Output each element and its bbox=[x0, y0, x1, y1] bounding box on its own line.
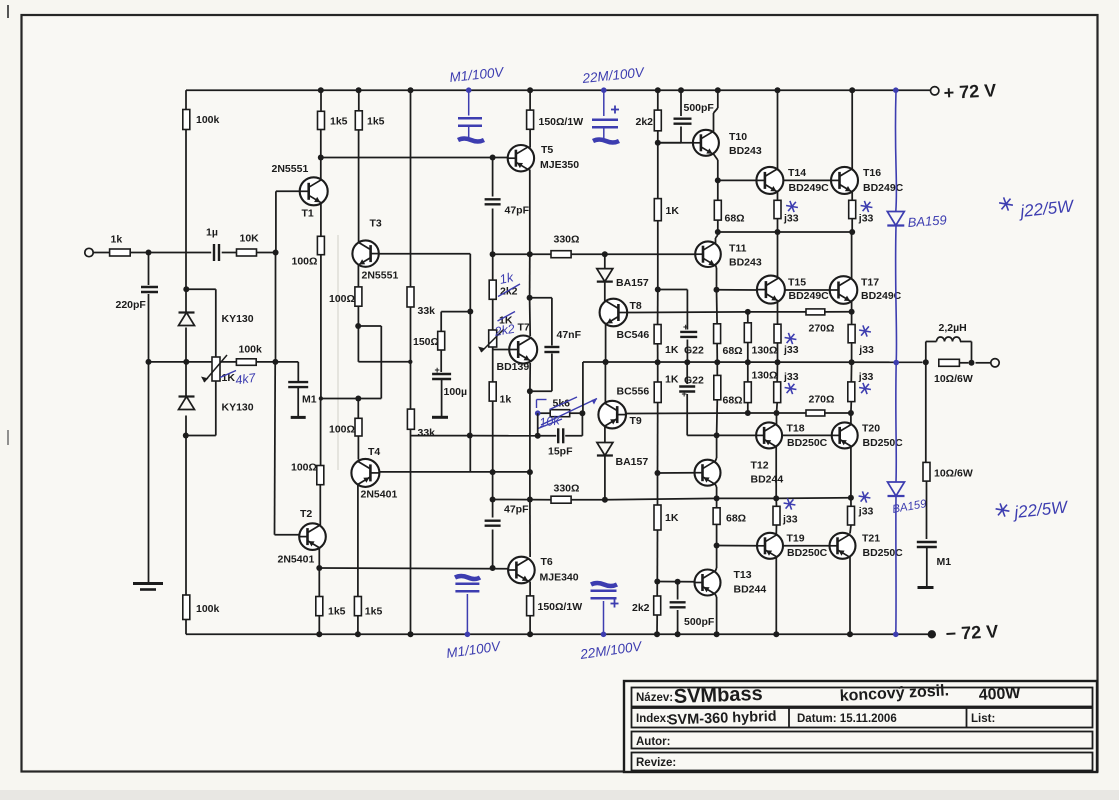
resistor 130R lower bbox=[744, 369, 777, 402]
svg-text:2N5551: 2N5551 bbox=[272, 163, 309, 175]
transistor T12 BD244 bbox=[695, 460, 784, 486]
diode BA159 upper (blue) bbox=[887, 212, 947, 230]
svg-text:G22: G22 bbox=[684, 345, 704, 357]
resistor 100k feedback bbox=[236, 344, 262, 366]
resistor 100R T2 collector bbox=[291, 462, 324, 485]
wire T9 base row bbox=[626, 412, 748, 415]
resistor R1 1k input bbox=[110, 234, 131, 257]
wire zobel column bbox=[925, 362, 927, 462]
wire T2 collector to 100R bbox=[319, 485, 321, 526]
node KY column lower junction bbox=[183, 433, 189, 439]
capacitor 22M/100V bottom (blue electrolytic) bbox=[578, 583, 644, 662]
node T18 base row bbox=[714, 432, 720, 438]
node T5 base row 47pF junction bbox=[490, 155, 496, 161]
wire T19 collector row bbox=[717, 497, 777, 499]
node T12 base bbox=[655, 470, 661, 476]
wire T10 base row bbox=[658, 142, 693, 144]
resistor j33 T20 bbox=[848, 371, 874, 402]
svg-text:M1: M1 bbox=[937, 556, 952, 568]
title block row Autor bbox=[632, 732, 1093, 749]
wire T5 emitter down bbox=[528, 169, 529, 171]
svg-text:T6: T6 bbox=[541, 556, 553, 568]
wire 33k column bbox=[410, 90, 412, 287]
node 130R upper top bbox=[745, 309, 751, 315]
wire T16 collector to rail bbox=[851, 90, 853, 169]
node BA157 upper bbox=[602, 251, 608, 257]
resistor R 100k bottom-left bbox=[183, 595, 220, 620]
wire junction row to T1 column bbox=[321, 398, 358, 400]
node branch lower bbox=[467, 433, 473, 439]
svg-text:T3: T3 bbox=[370, 218, 382, 230]
node T15 row upper bbox=[715, 229, 721, 235]
wire T3 emitter to 100R bbox=[357, 265, 359, 287]
capacitor M1 zobel bbox=[917, 542, 951, 568]
wire 100k feedback row y=361.9 bbox=[186, 361, 211, 363]
wire T3 base row bbox=[379, 253, 471, 255]
resistor 270R lower bbox=[806, 394, 834, 416]
svg-text:BD250C: BD250C bbox=[863, 547, 904, 559]
wire 5k6 right leg down bbox=[581, 413, 583, 436]
wire T15 collector row bbox=[718, 231, 852, 233]
svg-text:BA157: BA157 bbox=[616, 277, 649, 289]
svg-text:j33: j33 bbox=[858, 213, 874, 225]
diode BA159 lower (blue) bbox=[888, 482, 929, 516]
svg-text:100k: 100k bbox=[196, 603, 220, 615]
wire T20 collector down bbox=[850, 447, 852, 498]
wire T6 base row bbox=[319, 567, 508, 570]
resistor 68R fourth bbox=[713, 508, 746, 525]
wire T9 collector to BA157 lower bbox=[604, 426, 606, 443]
annotation blue 10k correction bbox=[535, 397, 597, 430]
svg-text:BD139: BD139 bbox=[497, 361, 530, 373]
svg-text:T14: T14 bbox=[788, 167, 806, 179]
svg-text:T16: T16 bbox=[863, 167, 881, 179]
node output row right junctions bbox=[923, 359, 929, 365]
svg-text:j33: j33 bbox=[858, 371, 874, 383]
svg-text:T21: T21 bbox=[862, 533, 880, 545]
svg-text:BD249C: BD249C bbox=[789, 182, 830, 194]
wire 330R upper row bbox=[493, 253, 551, 255]
trimmer 1K bias (corrected 2k2) bbox=[478, 312, 516, 353]
svg-text:T19: T19 bbox=[787, 533, 805, 545]
node T4 base row at 492.8 bbox=[490, 469, 496, 475]
terminal input bbox=[85, 248, 93, 256]
svg-text:150Ω: 150Ω bbox=[413, 336, 439, 348]
svg-text:130Ω: 130Ω bbox=[752, 344, 778, 356]
svg-text:MJE350: MJE350 bbox=[540, 159, 579, 171]
svg-text:BD243: BD243 bbox=[729, 145, 762, 157]
wire T14 emitter to j33 bbox=[777, 192, 779, 200]
transistor T14 BD249C bbox=[756, 167, 829, 194]
wire T2 emitter bbox=[318, 548, 320, 568]
wire rail to 150R/1W top bbox=[529, 90, 531, 110]
node BA157 lower to 330R row bbox=[602, 497, 608, 503]
resistor 2k2 upper bbox=[636, 110, 662, 131]
annotation blue 4k7 correction bbox=[220, 371, 257, 388]
wire top +72V rail bbox=[186, 89, 931, 91]
node T13 base bbox=[654, 579, 660, 585]
svg-text:1k5: 1k5 bbox=[365, 606, 383, 618]
ground M1 zobel bbox=[918, 586, 934, 589]
svg-text:+ 72 V: + 72 V bbox=[943, 80, 997, 103]
node 220pF to KY wire bbox=[149, 361, 187, 363]
wire T11 emitter bbox=[716, 265, 717, 268]
wire T3 emitter branch to right loop bbox=[357, 306, 359, 326]
svg-text:j33: j33 bbox=[783, 371, 799, 383]
node T14 base row bbox=[715, 177, 721, 183]
wire T17 collector up bbox=[851, 232, 853, 279]
node output row junctions mid bbox=[655, 359, 661, 365]
wire T19 base row bbox=[717, 545, 757, 547]
capacitor 500pF upper bbox=[674, 102, 715, 124]
svg-text:T10: T10 bbox=[729, 131, 747, 143]
ground M1 left bbox=[291, 416, 306, 419]
annotation star j33 T18 bbox=[785, 388, 797, 390]
svg-text:− 72 V: − 72 V bbox=[945, 621, 999, 644]
node blue column output row bbox=[893, 360, 899, 366]
resistor 68R first bbox=[714, 200, 744, 224]
wire T18 base row bbox=[717, 434, 757, 436]
wire 15pF row bbox=[410, 435, 470, 437]
resistor 2k2 lower bbox=[632, 596, 661, 615]
node 47nF bottom bbox=[527, 388, 533, 394]
wire 100R to T4 bbox=[357, 399, 359, 419]
resistor 1K third bbox=[654, 373, 679, 402]
svg-text:MJE340: MJE340 bbox=[540, 572, 579, 584]
capacitor G22 lower branch bbox=[686, 362, 688, 384]
capacitor 47pF lower bbox=[485, 504, 529, 526]
transistor T19 BD250C bbox=[757, 533, 828, 560]
svg-text:1k: 1k bbox=[500, 394, 512, 406]
wire 1K second leads bbox=[657, 290, 659, 325]
svg-text:BD250C: BD250C bbox=[863, 437, 904, 449]
node T12 emitter row bbox=[714, 495, 720, 501]
wire T20 emitter up bbox=[850, 413, 852, 425]
wire 2k2 to T10 base node bbox=[657, 131, 659, 143]
svg-text:220pF: 220pF bbox=[116, 299, 147, 311]
capacitor 22M/100V top (blue electrolytic) bbox=[581, 64, 647, 142]
svg-text:T8: T8 bbox=[630, 300, 642, 312]
wire T15 emitter to j33 lower bbox=[777, 302, 779, 325]
ground 100u bbox=[432, 416, 448, 419]
svg-text:2N5401: 2N5401 bbox=[278, 554, 315, 566]
svg-text:j33: j33 bbox=[783, 213, 799, 225]
annotation star j33 T17 bbox=[859, 330, 871, 332]
svg-text:+: + bbox=[682, 389, 687, 399]
annotation star j33 T14 bbox=[786, 206, 798, 208]
svg-text:47pF: 47pF bbox=[504, 504, 529, 516]
wire 5k6 left leg down bbox=[537, 413, 539, 436]
svg-text:BA157: BA157 bbox=[616, 456, 649, 468]
svg-text:G22: G22 bbox=[684, 375, 704, 387]
node T15 base row bbox=[714, 287, 720, 293]
wire 1k5 T2 column bbox=[318, 568, 320, 597]
svg-text:1K: 1K bbox=[665, 373, 679, 385]
node blue column bottom bbox=[893, 632, 899, 638]
svg-text:BD250C: BD250C bbox=[787, 437, 828, 449]
transistor T18 BD250C bbox=[756, 422, 828, 448]
wire j33 T15 to output row bbox=[777, 343, 779, 362]
resistor 130R upper bbox=[744, 323, 777, 357]
svg-text:T15: T15 bbox=[788, 277, 806, 289]
wire 130R upper leads bbox=[747, 312, 749, 323]
resistor 1k bias lower bbox=[489, 382, 511, 406]
node T8/T9 emitter junction bbox=[603, 359, 609, 365]
resistor j33 T14 bbox=[774, 200, 799, 224]
svg-text:2k2: 2k2 bbox=[632, 602, 650, 614]
svg-text:T5: T5 bbox=[541, 144, 553, 156]
resistor 5k6 (corrected 10k) bbox=[550, 398, 570, 417]
svg-text:270Ω: 270Ω bbox=[809, 394, 835, 406]
svg-text:j33: j33 bbox=[783, 344, 799, 356]
capacitor 500pF upper column bbox=[680, 90, 682, 116]
svg-text:500pF: 500pF bbox=[684, 616, 715, 628]
svg-text:T4: T4 bbox=[368, 446, 380, 458]
wire T15 base row bbox=[717, 289, 758, 291]
wire T13 collector bbox=[715, 568, 717, 572]
wire 1K fourth leads bbox=[657, 473, 659, 505]
wire 150R bottom to rail bbox=[529, 616, 531, 635]
capacitor 15pF bbox=[548, 428, 573, 457]
svg-text:100Ω: 100Ω bbox=[292, 256, 318, 268]
wire T16 emitter to j33 bbox=[851, 192, 853, 200]
wire 68R first leads bbox=[717, 180, 719, 200]
svg-text:KY130: KY130 bbox=[222, 402, 254, 414]
wire T12 base row bbox=[658, 472, 695, 474]
annotation star j33 T20 bbox=[859, 388, 871, 390]
wire 150R branch bbox=[441, 311, 470, 313]
capacitor G22 upper bbox=[680, 322, 704, 357]
wire T11 collector bbox=[715, 238, 717, 244]
node G22 branch upper bbox=[655, 287, 661, 293]
svg-text:33k: 33k bbox=[418, 305, 436, 317]
wire 330R lower row bbox=[493, 499, 551, 501]
node 47nF top bbox=[527, 295, 533, 301]
wire trimmer branch from KY upper node bbox=[186, 288, 216, 290]
svg-text:100Ω: 100Ω bbox=[329, 293, 355, 305]
wire T8 base row bbox=[627, 311, 748, 314]
wire VAS column T5 to 47nF node bbox=[529, 254, 531, 298]
wire 5k6 node up to emitter row bbox=[582, 362, 584, 413]
resistor 1k5 left bbox=[318, 111, 348, 129]
svg-text:Autor:: Autor: bbox=[636, 736, 671, 748]
wire 1k5 to bottom rail bbox=[318, 616, 320, 635]
node KY column mid junction bbox=[183, 359, 189, 365]
transistor T3 2N5551 bbox=[352, 218, 398, 282]
node blue column top bbox=[893, 87, 899, 93]
wire 47pF column upper bbox=[492, 158, 494, 197]
wire T3 emitter down to 33k corner bbox=[357, 326, 359, 362]
wire T12 emitter bbox=[715, 484, 717, 487]
transistor T8 BC546 bbox=[600, 299, 650, 341]
diode BA157 lower bbox=[597, 443, 648, 469]
wire T14 base row segment bbox=[718, 179, 757, 181]
svg-text:T12: T12 bbox=[751, 460, 769, 472]
wire 47nF node to T7 collector bbox=[529, 298, 532, 336]
wire 220pF branch x=148.5 bbox=[148, 253, 150, 286]
resistor 1K second bbox=[654, 325, 679, 356]
resistor j33 T19 bbox=[773, 506, 798, 525]
transistor T20 BD250C bbox=[832, 422, 903, 448]
svg-text:List:: List: bbox=[971, 713, 995, 725]
svg-text:15pF: 15pF bbox=[548, 446, 573, 458]
resistor j33 T16 bbox=[849, 200, 874, 224]
svg-text:T11: T11 bbox=[729, 243, 747, 255]
node input junction 220pF bbox=[146, 250, 152, 256]
wire T17 emitter to j33 bbox=[851, 302, 853, 312]
wire T10 emitter bbox=[714, 154, 718, 160]
diode BA157 upper bbox=[597, 269, 649, 289]
resistor 10R/6W vertical bbox=[923, 462, 973, 481]
wire 150R to T5 collector bbox=[529, 129, 531, 147]
svg-text:j33: j33 bbox=[858, 506, 874, 518]
svg-text:j33: j33 bbox=[782, 514, 798, 526]
svg-text:10Ω/6W: 10Ω/6W bbox=[934, 373, 973, 385]
wire column 1k section bbox=[492, 347, 494, 382]
svg-text:1k: 1k bbox=[111, 234, 123, 246]
svg-text:BC556: BC556 bbox=[617, 386, 650, 398]
wire 1K upper column bbox=[657, 143, 659, 199]
node branch upper bbox=[467, 309, 473, 315]
svg-text:47pF: 47pF bbox=[505, 205, 530, 217]
wire T20 base segment bbox=[782, 434, 832, 436]
inductor 2.2uH bbox=[926, 322, 972, 363]
svg-text:1K: 1K bbox=[665, 344, 679, 356]
wire 1k5 left to rail bbox=[320, 90, 322, 111]
wire T17 base segment bbox=[785, 289, 830, 291]
resistor 150R bias bbox=[413, 331, 445, 350]
svg-text:150Ω/1W: 150Ω/1W bbox=[538, 601, 583, 613]
capacitor 1u input coupling bbox=[206, 227, 219, 262]
wire T1 collector to 1k5 bbox=[320, 158, 322, 181]
wire G22 branch upper bbox=[658, 289, 688, 291]
svg-text:2N5401: 2N5401 bbox=[361, 489, 398, 501]
wire 1K third leads bbox=[657, 362, 659, 382]
svg-text:T13: T13 bbox=[734, 569, 752, 581]
transistor T4 2N5401 bbox=[351, 446, 397, 501]
wire bottom -72V rail bbox=[186, 633, 928, 635]
resistor 100R T3 emitter bbox=[329, 287, 362, 306]
transistor T21 BD250C bbox=[830, 533, 904, 560]
transistor T16 BD249C bbox=[831, 167, 904, 194]
resistor 68R third bbox=[714, 375, 743, 406]
annotation star j33 T19 bbox=[784, 503, 796, 505]
wire T15 collector up bbox=[777, 232, 779, 278]
resistor j33 T18 bbox=[774, 371, 799, 403]
terminal +72V bbox=[931, 80, 997, 103]
node 330R lower row left bbox=[490, 497, 496, 503]
wire 2k2 column top bbox=[657, 90, 659, 110]
transistor T15 BD249C bbox=[757, 276, 829, 304]
node T2 emitter bbox=[316, 565, 322, 571]
svg-text:330Ω: 330Ω bbox=[554, 483, 580, 495]
wire T1 emitter to 100R bbox=[320, 203, 322, 237]
svg-text:100Ω: 100Ω bbox=[291, 462, 317, 474]
wire T18 emitter up bbox=[776, 413, 778, 425]
transistor T5 MJE350 bbox=[508, 144, 580, 171]
svg-text:T20: T20 bbox=[862, 423, 880, 435]
svg-text:KY130: KY130 bbox=[222, 313, 254, 325]
terminal -72V bbox=[928, 621, 999, 644]
svg-text:47nF: 47nF bbox=[557, 329, 582, 341]
wire 150R to 100u bbox=[440, 350, 442, 372]
wire M1 to ground bbox=[297, 387, 299, 417]
wire input row bbox=[93, 252, 110, 254]
annotation star j33 T16 bbox=[861, 206, 873, 208]
wire T4 base row bbox=[379, 471, 530, 473]
capacitor G22 lower bbox=[679, 375, 704, 400]
capacitor 500pF lower bbox=[670, 602, 715, 628]
wire 2k2 lower leads bbox=[656, 582, 658, 597]
svg-text:T2: T2 bbox=[300, 508, 312, 520]
node T3 100R junction bbox=[355, 396, 361, 402]
resistor 100R T4 collector bbox=[329, 418, 362, 436]
svg-text:SVMbass: SVMbass bbox=[673, 683, 763, 708]
diode KY130 upper bbox=[179, 313, 254, 326]
resistor 150R/1W top bbox=[527, 110, 584, 129]
resistor 10R/6W horizontal bbox=[934, 359, 973, 385]
annotation j22/5W lower (blue) bbox=[996, 497, 1070, 522]
svg-text:M1: M1 bbox=[302, 394, 317, 406]
svg-text:100Ω: 100Ω bbox=[329, 424, 355, 436]
svg-text:1K: 1K bbox=[665, 512, 679, 524]
wire T14 collector to rail bbox=[777, 90, 779, 169]
svg-text:Název:: Název: bbox=[636, 692, 673, 704]
transistor T1 2N5551 bbox=[272, 163, 328, 220]
transistor T6 MJE340 bbox=[508, 556, 579, 584]
wire T9 emitter up bbox=[604, 362, 606, 404]
svg-text:100k: 100k bbox=[196, 114, 220, 126]
capacitor 47nF loop bbox=[530, 297, 552, 299]
wire 130R lower leads bbox=[747, 362, 749, 382]
wire T3 collector to 1k5 bbox=[358, 130, 360, 242]
transistor T7 BD139 bbox=[497, 322, 538, 374]
wire 68R fourth leads bbox=[716, 498, 718, 507]
wire column 2k2 section bbox=[492, 254, 494, 280]
resistor 270R upper bbox=[806, 309, 834, 334]
transistor T9 BC556 bbox=[598, 386, 649, 429]
svg-text:j33: j33 bbox=[858, 344, 874, 356]
svg-text:BC546: BC546 bbox=[617, 329, 650, 341]
wire T4 emitter column bbox=[357, 485, 359, 597]
svg-text:130Ω: 130Ω bbox=[752, 369, 778, 381]
node T5 emitter at 330R row bbox=[527, 251, 533, 257]
resistor 2k2 bias (corrected 1k) bbox=[489, 269, 520, 299]
wire 68R second leads bbox=[716, 290, 719, 324]
wire 1k5 T4 to rail bbox=[357, 616, 359, 635]
node KY column upper junction bbox=[183, 286, 189, 292]
capacitor M1 left bbox=[288, 382, 317, 405]
title block outer box bbox=[624, 681, 1097, 772]
wire j33 T20 leads bbox=[850, 362, 852, 382]
svg-text:1K: 1K bbox=[666, 205, 680, 217]
node T4 base row end bbox=[527, 469, 533, 475]
resistor 330R upper bbox=[551, 234, 579, 258]
svg-text:T7: T7 bbox=[518, 322, 530, 334]
node T10 base bbox=[655, 140, 661, 146]
svg-text:33k: 33k bbox=[418, 427, 436, 439]
wire 5k6 row bbox=[538, 412, 551, 414]
wire blue BA159 column bbox=[895, 91, 896, 635]
title block row Index/Datum/List bbox=[632, 708, 1093, 728]
svg-text:BA159: BA159 bbox=[907, 212, 947, 230]
svg-text:T17: T17 bbox=[861, 277, 879, 289]
transistor T10 BD243 bbox=[693, 130, 762, 157]
capacitor 220pF bbox=[116, 287, 159, 311]
svg-text:1k5: 1k5 bbox=[367, 116, 385, 128]
wire j33 T16 to row bbox=[851, 219, 853, 232]
resistor 33k lower bbox=[407, 409, 435, 439]
